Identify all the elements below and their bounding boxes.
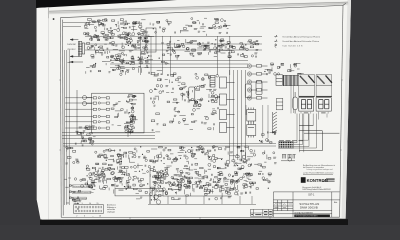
oscillator crystal [293,92,298,114]
drawing frame [60,3,346,217]
range switching ic box [92,93,144,133]
title block option bar [294,215,330,218]
relay cluster under bus [75,136,95,146]
svg-text:Netzanschluss Board: Netzanschluss Board [73,185,91,188]
shadow band below page bottom [40,219,348,225]
stamp sub text [302,186,331,191]
legend text lines [282,35,320,47]
underlying page strip left edge [37,7,49,219]
svg-text:Bereichsanzeige: Bereichsanzeige [73,197,87,200]
bottom bus line [148,204,256,206]
ac-dc converter band [161,39,260,60]
mid junction wires [110,61,248,68]
integrator band cluster [133,145,250,174]
manufacturer stamp [301,177,335,183]
hatched decoder block [210,76,215,88]
input divider relay box [78,41,84,56]
svg-text:auf der Platine DMM 3003 aufst: auf der Platine DMM 3003 aufstecken [303,172,334,175]
analog band opamps [98,153,248,189]
transistor pair left of ic box [77,90,92,135]
7seg module 1 label [304,112,308,113]
signature handwriting [274,204,292,208]
svg-text:DIGITAL MULTIMETER: DIGITAL MULTIMETER [294,211,313,214]
trimmer capacitor cluster [281,155,296,162]
guard wire top left [63,22,91,26]
svg-text:2: 2 [76,215,77,217]
ribbon cable block [284,75,298,85]
pin header fanout wires [293,114,339,151]
title block title text [294,201,337,214]
driver ic U21 [247,108,256,124]
punch mark dot [53,18,55,20]
regulator box 792A [115,188,232,196]
svg-text:and auf der: and auf der [107,209,116,211]
segment driver transistors [247,64,267,100]
ohm converter cluster [95,149,135,170]
svg-text:empfangen: empfangen [107,212,115,214]
multimeter board connector J1 [74,205,104,214]
notes text block [303,164,336,175]
display bezel right 3d box [316,75,332,97]
dark gap above page top-left [36,0,177,8]
7seg display module 1 (LD1) [299,98,314,112]
adc lower cluster [151,104,218,132]
ohm lower cluster [85,165,135,189]
output transistors Q31 Q32 [150,168,161,204]
comparator band cluster [150,172,251,197]
paper right edge shading [342,0,352,219]
svg-text:DMM 3003/B: DMM 3003/B [300,206,318,210]
svg-text:1: 1 [75,203,76,205]
latch box column [220,77,235,133]
relay boxes mid band [189,81,262,101]
svg-text:Takt Schlitt 13 S: Takt Schlitt 13 S [282,44,303,47]
svg-text:15: 15 [97,203,99,205]
switch rows inside ic box [65,97,109,129]
7seg module 2 label [321,112,325,113]
svg-text:Verstellbar Abstand Richtger: Verstellbar Abstand Richtgerat Platine [282,35,320,38]
power supply band cluster [87,171,253,194]
paper top edge line [49,2,348,11]
svg-text:10: 10 [89,203,91,205]
power supply left cluster [64,178,86,188]
ic box mid glyphs [111,101,130,129]
svg-text:5: 5 [82,203,83,205]
range divider cluster [87,36,155,61]
supply drop wires [150,196,252,204]
digit driver cluster [264,63,303,75]
analog bus lines [63,144,276,146]
input terminal arrows and range labels [70,39,83,63]
left margin bus wires [65,50,70,205]
revision table [250,209,272,216]
input protection cluster [83,18,149,40]
left horizontal bus [62,133,155,139]
power supply sparse lower [136,192,251,202]
vertical bus lines [230,70,246,160]
legend adjustable trimmer symbols [274,35,277,48]
precision rectifier cluster [150,18,230,36]
connector pin numbers [75,203,101,217]
display left small module [276,98,282,109]
display bezel left 3d box [299,75,315,97]
shield box [146,28,156,52]
buffer cluster under converter [112,51,169,75]
bottom-left of ic cluster [75,125,94,136]
svg-text:100V/1M: 100V/1M [67,44,76,46]
svg-text:D-8057 Eching Postfach 90 Te: D-8057 Eching Postfach 90 Telefon 089/31… [302,188,331,191]
left margin glyphs low [65,187,81,210]
paper top edge shadow [49,3,348,12]
connector note text [107,204,117,214]
driver ic U22 [247,123,256,138]
title block table [273,192,339,217]
svg-text:037-1: 037-1 [308,194,315,197]
adc section cluster [149,73,219,104]
comparator column in ic box [125,95,138,137]
top band bus wires [85,37,262,51]
svg-text:OPTION BANDSCHREIBER: OPTION BANDSCHREIBER [295,215,318,218]
svg-text:SCHALTPLAN: SCHALTPLAN [299,202,319,206]
ac-dc converter label [180,30,189,31]
display decoder ic [276,75,283,86]
reference cluster right of converter [217,39,232,50]
svg-text:700 VDC: 700 VDC [67,49,76,51]
bottom connection labels [70,185,73,199]
current shunt cluster [86,58,148,75]
display wiring harness [246,68,339,152]
svg-text:Verstellbar Abstand Schraube: Verstellbar Abstand Schraube Platine [282,40,319,43]
transistor type label row [279,139,303,142]
segment resistor ladder [273,112,278,133]
7seg display module 2 (LD2) [316,98,331,112]
svg-text:6: 6 [84,215,85,217]
right transistor strip [247,131,277,189]
left margin glyphs mid [65,146,79,164]
svg-text:Leitung nur geschirmt verlegen: Leitung nur geschirmt verlegen und [307,168,333,171]
frame tick marks [59,80,343,219]
paper sheet [37,0,352,220]
pin header block [279,142,293,148]
svg-text:16: 16 [99,215,101,217]
